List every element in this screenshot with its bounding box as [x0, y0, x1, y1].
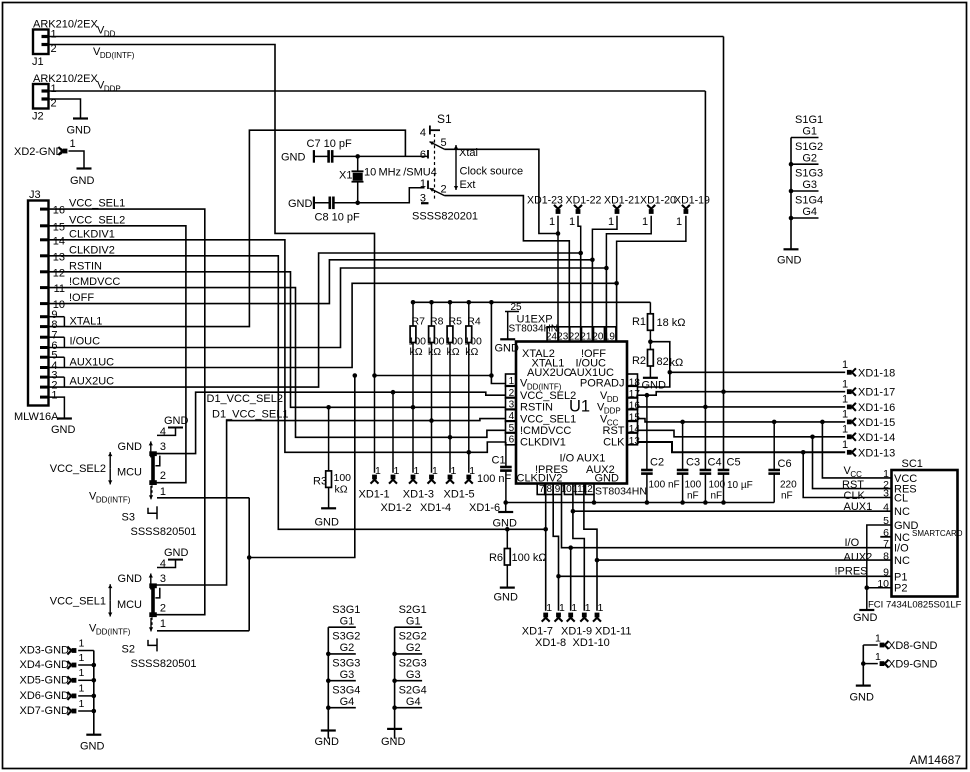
svg-text:C8 10 pF: C8 10 pF [315, 212, 361, 224]
connector J1 ARK210/2EX [32, 19, 98, 69]
svg-text:I/O: I/O [894, 543, 909, 555]
svg-text:XD1-5: XD1-5 [444, 489, 475, 501]
svg-text:DD(INTF): DD(INTF) [96, 495, 131, 504]
svg-text:!CMDVCC: !CMDVCC [520, 425, 571, 437]
net label D1_VCC_SEL1 [212, 409, 288, 421]
svg-text:XD1-20: XD1-20 [640, 195, 676, 207]
svg-text:S3G3: S3G3 [332, 657, 360, 669]
svg-text:S2: S2 [122, 643, 135, 655]
wire VCC_SEL2 J3 pin15 to S3 pin 2 [49, 226, 186, 483]
connector SC1 smartcard FCI 7434L0825S01LF [877, 458, 962, 597]
U1 inside pin labels [517, 348, 626, 485]
wire CLKDIV2 J3 pin13 to R6 and U1 pin 7 net [49, 256, 546, 530]
svg-text:19: 19 [604, 331, 616, 342]
svg-text:XD1-13: XD1-13 [858, 447, 895, 459]
svg-text:C5: C5 [727, 457, 741, 469]
svg-text:G1: G1 [340, 615, 355, 627]
part label FCI 7434L0825S01LF [868, 600, 962, 611]
svg-text:1: 1 [414, 465, 420, 477]
wire CLK U1 pin 13 to XD1-13 and SC1 [638, 442, 846, 455]
svg-text:J2: J2 [32, 111, 44, 123]
svg-text:S2G4: S2G4 [399, 684, 427, 696]
svg-text:4: 4 [160, 558, 166, 570]
capacitor C5 10 uF [718, 457, 753, 503]
test point XD1-1 [371, 376, 382, 484]
svg-text:FCI 7434L0825S01LF: FCI 7434L0825S01LF [868, 600, 962, 611]
svg-text:GND: GND [118, 441, 143, 453]
svg-text:G3: G3 [406, 669, 421, 681]
svg-text:2: 2 [441, 184, 447, 196]
net label VDD(INTF) [93, 46, 135, 60]
wire SC1 ground pins 5 and 10 [865, 525, 892, 610]
svg-text:GND: GND [315, 736, 340, 748]
svg-text:XD4-GND: XD4-GND [19, 659, 69, 671]
svg-text:I/OUC: I/OUC [70, 336, 101, 348]
svg-text:XD7-GND: XD7-GND [19, 705, 69, 717]
svg-text:R4: R4 [467, 316, 481, 328]
wire XTAL1 J3 pin8 to crystal node [49, 130, 406, 326]
jumper stack S1G1-S1G4 [789, 114, 823, 249]
J3 pin numbers [51, 205, 65, 402]
svg-text:100 kΩ: 100 kΩ [512, 552, 547, 564]
wire S1 pin 2 to U1 pin 23 [445, 196, 570, 342]
wire U1 pin 10 AUX1 to XD1-10 and SC1 [571, 495, 892, 611]
test point XD2-GND [14, 138, 76, 158]
ground symbol below J2 [67, 119, 92, 137]
svg-text:GND: GND [118, 573, 143, 585]
svg-text:XD1-3: XD1-3 [403, 489, 434, 501]
svg-text:CLKDIV1: CLKDIV1 [520, 437, 566, 449]
svg-text:U1: U1 [569, 398, 590, 416]
svg-text:G2: G2 [802, 152, 817, 164]
svg-text:XD1-23: XD1-23 [527, 195, 563, 207]
svg-text:1: 1 [549, 216, 555, 228]
svg-text:RSTIN: RSTIN [520, 402, 553, 414]
svg-text:C1: C1 [492, 455, 506, 467]
U1 part label bottom [595, 486, 647, 498]
svg-text:18 kΩ: 18 kΩ [657, 317, 686, 329]
svg-text:SC1: SC1 [902, 458, 923, 470]
svg-text:GND: GND [381, 736, 406, 748]
wire AUX2UC J3 pin2 to U1 pin 22 [49, 253, 581, 387]
svg-text:S3G2: S3G2 [332, 631, 360, 643]
svg-text:G1: G1 [406, 615, 421, 627]
svg-text:R6: R6 [489, 552, 503, 564]
wire D1_VCC_SEL2 S3 pin3 to U1 pin 2 [156, 390, 506, 454]
svg-text:GND: GND [777, 255, 802, 267]
wire I/OUC J3 pin6 to U1 pin 20 [49, 268, 607, 348]
svg-text:XD1-8: XD1-8 [535, 637, 566, 649]
ground symbol below R3 [315, 508, 340, 528]
svg-text:kΩ: kΩ [447, 346, 460, 358]
svg-text:GND: GND [493, 518, 518, 530]
svg-text:kΩ: kΩ [335, 484, 348, 496]
ground symbol below S3G stack [315, 731, 340, 749]
svg-text:S1G1: S1G1 [795, 114, 823, 126]
svg-text:G2: G2 [406, 642, 421, 654]
test points XD3-GND..XD7-GND [19, 637, 96, 734]
svg-text:1: 1 [51, 83, 57, 95]
test point XD1-23 [527, 195, 563, 342]
svg-text:AUX1UC: AUX1UC [70, 356, 115, 368]
svg-text:C2: C2 [650, 457, 664, 469]
wire VCC U1 pin 15 to XD1-15 and SC1 [638, 419, 846, 425]
U1 pin boxes left 1..6 [506, 374, 517, 446]
ground symbol below XD3..XD7 [80, 735, 105, 753]
test point XD1-21 [590, 195, 640, 263]
resistor R2 82 kOhm [632, 339, 683, 377]
jumper stack S3G1-S3G4 [326, 604, 360, 739]
U1 exposed pad pin 25 U1EXP [505, 302, 558, 339]
svg-text:XD1-2: XD1-2 [381, 502, 412, 514]
net label I/O at SC1 [845, 537, 860, 549]
resistor R8 100 kOhm [427, 302, 445, 473]
svg-text:1: 1 [432, 465, 438, 477]
svg-text:1: 1 [585, 602, 591, 614]
svg-text:AUX2: AUX2 [844, 552, 873, 564]
svg-text:GND: GND [80, 741, 105, 753]
U1 pin boxes bottom 7..12 [537, 484, 594, 496]
label S1 position Xtal/Clock source/Ext [454, 145, 523, 191]
svg-text:1: 1 [842, 409, 848, 421]
ground symbol below XD2-GND [70, 169, 95, 188]
U1 pin boxes top 24..19 [546, 327, 616, 343]
ground symbol below XD8/XD9 [850, 686, 875, 704]
svg-text:XD1-10: XD1-10 [573, 637, 610, 649]
svg-text:CLKDIV1: CLKDIV1 [69, 228, 115, 240]
wire SC1 pin 6 stub [880, 536, 891, 538]
svg-text:12: 12 [582, 484, 594, 495]
svg-text:G3: G3 [802, 179, 817, 191]
svg-text:ARK210/2EX: ARK210/2EX [33, 19, 98, 31]
wire U1 pin 7 CLKDIV2 to XD1-7 [543, 495, 548, 611]
node crystal junction dots [355, 154, 360, 205]
svg-text:9: 9 [883, 567, 889, 579]
svg-text:7: 7 [883, 538, 889, 550]
capacitor C1 100 nF [477, 442, 512, 503]
wire VDD(INTF) pull-up rail [411, 300, 651, 376]
svg-text:S2G3: S2G3 [399, 657, 427, 669]
test point XD1-5 [446, 465, 457, 484]
wire !CMDVCC J3 pin11 to U1 pin 5 [49, 288, 506, 438]
svg-text:1: 1 [842, 359, 848, 371]
svg-text:1: 1 [451, 465, 457, 477]
ground symbol below R6 [494, 588, 519, 604]
svg-text:J3: J3 [29, 189, 41, 201]
wire CLK drop to SC1 pin 3 [803, 452, 891, 497]
svg-text:GND: GND [315, 517, 340, 529]
svg-text:SSSS820501: SSSS820501 [131, 658, 197, 670]
wire VDD vertical drop to C5 [723, 37, 725, 471]
svg-text:GND: GND [164, 415, 189, 427]
svg-text:G4: G4 [406, 696, 421, 708]
svg-text:DD: DD [104, 30, 116, 39]
net label CLK at SC1 [844, 490, 866, 502]
svg-text:1: 1 [608, 216, 614, 228]
svg-text:1: 1 [160, 618, 166, 630]
svg-text:3: 3 [160, 573, 166, 585]
svg-text:4: 4 [883, 501, 889, 513]
svg-text:DD: DD [607, 395, 619, 404]
svg-text:1: 1 [642, 216, 648, 228]
net label D1_VCC_SEL2 [207, 393, 283, 405]
svg-text:XD1-14: XD1-14 [858, 432, 895, 444]
svg-text:2: 2 [160, 470, 166, 482]
svg-text:CL: CL [894, 493, 908, 505]
svg-text:1: 1 [546, 602, 552, 614]
svg-text:100: 100 [685, 480, 702, 491]
svg-text:GND: GND [51, 424, 76, 436]
switch S1 SSSS820201 [412, 112, 478, 223]
wire U1 pin 12 to ground rail [593, 495, 595, 503]
test point XD1-18 [842, 359, 895, 379]
svg-text:SMARTCARD: SMARTCARD [912, 529, 963, 538]
test points XD8-GND XD9-GND [861, 633, 938, 686]
svg-text:1: 1 [51, 29, 57, 41]
svg-text:GND: GND [642, 380, 667, 392]
svg-text:kΩ: kΩ [410, 346, 423, 358]
svg-text:GND: GND [853, 612, 878, 624]
jumper stack S2G1-S2G4 [392, 604, 426, 739]
svg-text:1: 1 [598, 602, 604, 614]
wire CLKDIV1 J3 pin14 to U1 pin 6 [49, 240, 506, 452]
svg-text:kΩ: kΩ [465, 346, 478, 358]
ground symbol U1EXP [495, 339, 520, 354]
test point XD1-4 [428, 465, 439, 484]
svg-text:CLKDIV2: CLKDIV2 [69, 244, 115, 256]
svg-text:G4: G4 [340, 696, 355, 708]
svg-text:1: 1 [79, 698, 85, 710]
svg-text:XD1-4: XD1-4 [420, 502, 451, 514]
wire AUX1UC J3 pin4 to U1 pin 19 [49, 283, 617, 367]
svg-text:1: 1 [375, 465, 381, 477]
svg-text:R8: R8 [430, 316, 444, 328]
svg-text:D1_VCC_SEL2: D1_VCC_SEL2 [207, 393, 283, 405]
svg-text:1: 1 [676, 216, 682, 228]
svg-text:!CMDVCC: !CMDVCC [69, 276, 120, 288]
svg-text:DD(INTF): DD(INTF) [96, 627, 131, 636]
svg-text:Ext: Ext [460, 179, 476, 191]
svg-text:R5: R5 [449, 316, 463, 328]
svg-text:1: 1 [875, 633, 881, 645]
wire J2 pin 2 to ground [49, 99, 81, 118]
test point XD1-13 [842, 439, 895, 459]
svg-text:C4: C4 [708, 457, 722, 469]
svg-text:1: 1 [160, 486, 166, 498]
resistor R6 100 kOhm [489, 527, 547, 587]
svg-text:XD2-GND: XD2-GND [14, 146, 64, 158]
wire !OFF J3 pin10 to U1 pin 21 [49, 260, 593, 342]
svg-text:D1_VCC_SEL1: D1_VCC_SEL1 [212, 409, 288, 421]
svg-text:1: 1 [875, 651, 881, 663]
svg-text:CLKDIV2: CLKDIV2 [517, 473, 563, 485]
net label VCC at SC1 [844, 465, 863, 479]
wire D1_VCC_SEL1 S2 pin3 to U1 pin 4 [156, 418, 506, 585]
svg-text:I/O AUX1: I/O AUX1 [560, 453, 606, 465]
svg-text:AUX1: AUX1 [844, 501, 873, 513]
switch S2 SSSS820501 [50, 547, 197, 670]
svg-text:AUX2UC: AUX2UC [527, 367, 572, 379]
wire RST drop to SC1 pin 2 [813, 437, 892, 489]
svg-text:1: 1 [569, 216, 575, 228]
svg-text:DD(INTF): DD(INTF) [100, 51, 135, 60]
svg-text:AUX2UC: AUX2UC [70, 375, 115, 387]
wire ground rail under U1 [503, 500, 774, 505]
svg-text:CLK: CLK [603, 437, 625, 449]
wire J3 pin 1 to ground [49, 397, 65, 418]
svg-text:R7: R7 [412, 316, 426, 328]
svg-text:GND: GND [281, 152, 306, 164]
svg-text:10 µF: 10 µF [727, 480, 753, 491]
resistor R5 100 kOhm [446, 302, 464, 473]
svg-text:nF: nF [781, 491, 793, 502]
svg-text:RSTIN: RSTIN [69, 260, 102, 272]
ground symbol below SC1 [853, 610, 878, 624]
svg-text:MCU: MCU [117, 599, 142, 611]
labels XD1-1..XD1-6 [359, 489, 501, 515]
test point XD1-6 [465, 465, 476, 484]
svg-text:XD1-7: XD1-7 [522, 626, 553, 638]
wire U1 pin 8 !PRES to XD1-8 and SC1 P1 [553, 495, 891, 611]
net label !PRES at SC1 [835, 566, 868, 578]
test points XD1-7..XD1-11 [542, 602, 604, 622]
svg-text:J1: J1 [32, 56, 44, 68]
svg-text:12: 12 [53, 267, 65, 279]
wire PORADJ net R1/R2 to U1 pin 18 and XD1-18 [638, 342, 846, 387]
svg-text:CC: CC [850, 470, 862, 479]
svg-text:DDP: DDP [104, 85, 121, 94]
svg-text:P2: P2 [894, 583, 907, 595]
test point XD1-17 [842, 378, 895, 398]
svg-text:Clock source: Clock source [460, 166, 524, 178]
svg-text:S1G3: S1G3 [795, 168, 823, 180]
svg-text:XD1-9: XD1-9 [561, 626, 592, 638]
svg-text:15: 15 [53, 221, 65, 233]
wire VDDP from J2 pin 1 [49, 90, 706, 92]
svg-text:NC: NC [894, 506, 910, 518]
svg-text:4: 4 [420, 127, 426, 139]
svg-text:XD1-1: XD1-1 [359, 489, 390, 501]
svg-text:G4: G4 [802, 206, 817, 218]
svg-text:4: 4 [160, 426, 166, 438]
svg-text:S1G4: S1G4 [795, 195, 823, 207]
J3 signal labels [69, 198, 125, 388]
svg-text:1: 1 [70, 138, 76, 150]
svg-text:1: 1 [51, 390, 57, 402]
svg-text:XD9-GND: XD9-GND [888, 658, 938, 670]
svg-text:XD1-21: XD1-21 [604, 195, 640, 207]
svg-text:1: 1 [79, 683, 85, 695]
capacitor C8 10 pF [288, 197, 360, 224]
svg-text:1: 1 [559, 602, 565, 614]
switch S3 SSSS820501 [50, 415, 197, 538]
svg-text:82: 82 [657, 356, 669, 368]
connector J3 MLW16A [14, 189, 59, 423]
svg-text:G2: G2 [340, 642, 355, 654]
svg-text:C3: C3 [686, 457, 700, 469]
J3 pin pair bridges [49, 317, 65, 387]
U1 pin boxes right 18..13 [627, 374, 640, 447]
svg-text:GND: GND [288, 198, 313, 210]
wire VDDP vertical drop to C4 [704, 91, 706, 470]
svg-text:XD8-GND: XD8-GND [888, 640, 938, 652]
svg-text:3: 3 [420, 193, 426, 205]
op-amp U1 ST8034HN body [516, 342, 627, 484]
svg-text:ST8034HN: ST8034HN [509, 324, 558, 335]
capacitor C4 100 nF [700, 457, 726, 503]
svg-text:1: 1 [842, 424, 848, 436]
wire VCC_SEL1 J3 pin16 to S2 pin 2 [49, 209, 205, 615]
wire VDD(INTF) feed to U1 pin 1 and switches [157, 373, 506, 631]
svg-text:AM14687: AM14687 [910, 753, 962, 767]
svg-text:8: 8 [883, 550, 889, 562]
test point XD1-19 [614, 195, 710, 286]
svg-text:P1: P1 [894, 571, 907, 583]
svg-text:XD3-GND: XD3-GND [19, 645, 69, 657]
svg-text:!OFF: !OFF [69, 292, 94, 304]
svg-text:G1: G1 [802, 126, 817, 138]
svg-text:1: 1 [79, 652, 85, 664]
drawing number label AM14687 [910, 753, 962, 767]
U1 reference label [569, 398, 590, 416]
test point XD1-2 [389, 392, 400, 483]
capacitor C2 100 nF [641, 395, 680, 502]
resistor R7 100 kOhm [409, 302, 427, 473]
svg-text:6: 6 [420, 149, 426, 161]
svg-text:S2G2: S2G2 [399, 631, 427, 643]
test point XD1-14 [842, 424, 895, 444]
ground symbol below S2G stack [381, 729, 406, 748]
svg-text:GND: GND [495, 343, 520, 355]
wire VCC drop to SC1 pin 1 [822, 422, 891, 478]
test point XD1-3 [409, 465, 420, 484]
svg-text:GND: GND [164, 547, 189, 559]
test point XD1-22 [566, 195, 602, 256]
svg-text:20: 20 [592, 331, 604, 342]
svg-text:1: 1 [842, 378, 848, 390]
junction dots on RSTIN / CMDVCC / CLKDIV1 rows [326, 405, 471, 455]
svg-text:S1G2: S1G2 [795, 141, 823, 153]
svg-text:kΩ: kΩ [670, 357, 684, 369]
svg-text:VCC_SEL2: VCC_SEL2 [50, 463, 106, 475]
svg-text:XD1-6: XD1-6 [469, 502, 500, 514]
svg-text:S3G4: S3G4 [332, 684, 360, 696]
svg-text:R2: R2 [632, 355, 646, 367]
wire S3 pin 3 stub [156, 453, 161, 455]
net label RST at SC1 [842, 479, 864, 491]
svg-text:S3G1: S3G1 [332, 604, 360, 616]
wire U1 pin 9 I/O to XD1-9 and SC1 [562, 495, 892, 611]
svg-text:GND: GND [70, 175, 95, 187]
svg-text:MCU: MCU [117, 467, 142, 479]
svg-text:VCC_SEL1: VCC_SEL1 [50, 595, 106, 607]
capacitor C6 220 nF [768, 422, 797, 503]
svg-text:6: 6 [509, 435, 515, 446]
svg-text:XD1-16: XD1-16 [858, 402, 895, 414]
svg-text:1: 1 [420, 178, 426, 190]
resistor R4 100 kOhm [464, 302, 482, 473]
svg-text:!PRES: !PRES [835, 566, 868, 578]
test point XD1-16 [842, 394, 895, 414]
svg-text:XD1-15: XD1-15 [858, 417, 895, 429]
svg-text:VCC_SEL2: VCC_SEL2 [520, 390, 576, 402]
svg-text:21: 21 [580, 331, 592, 342]
test point XD1-15 [842, 409, 895, 429]
net label VDDP [97, 80, 121, 94]
svg-text:nF: nF [687, 491, 699, 502]
wire RSTIN J3 pin12 to U1 pin 3 [49, 272, 506, 408]
ground symbol below R2 [642, 378, 667, 392]
